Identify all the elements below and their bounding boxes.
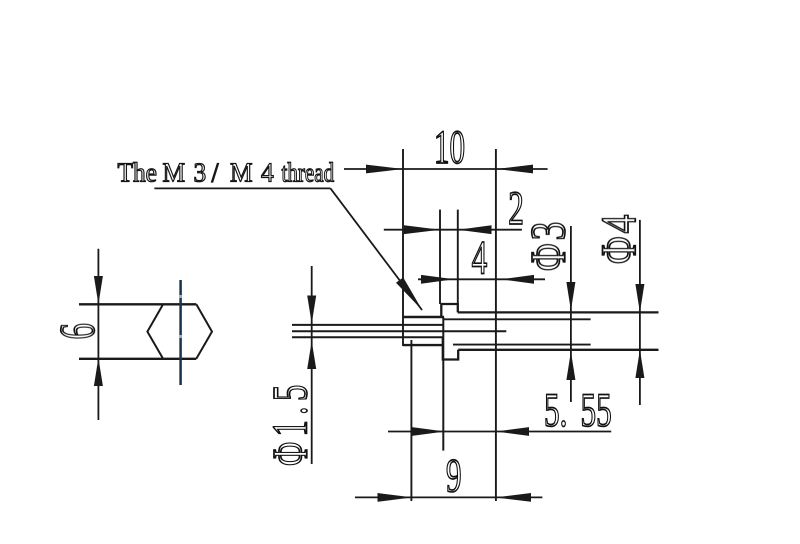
extension line x458 [457,210,459,304]
dim 5.55 right arrow [496,427,529,436]
hex head side view top line [79,303,196,305]
svg-text:thread: thread [282,158,335,188]
svg-text:10: 10 [434,121,465,174]
svg-text:/: / [212,158,220,188]
dim 10 text [434,121,465,174]
dim phi1.5 text [263,379,319,465]
dim phi4 upper arrow [635,284,644,312]
svg-text:Φ4: Φ4 [591,212,646,264]
svg-text:Φ3: Φ3 [520,219,575,271]
dim 9 dimension line [355,496,542,498]
dim 6 upper arrow [94,276,103,304]
leader arrowhead [396,277,423,310]
dim 5.55 dimension line [388,431,611,433]
dim 9 text [446,449,462,502]
dim phi4 dimension line [639,220,641,405]
svg-text:M4: M4 [230,158,282,188]
dim phi3 lower arrow [566,352,575,381]
ptfe tube bottom line [292,336,443,338]
extension line x411 [410,340,412,501]
dim phi1.5 lower arrow [307,341,316,369]
leader underline [154,187,330,189]
svg-text:9: 9 [446,449,462,502]
dim 2 left arrow [404,225,440,234]
dim 6 lower arrow [94,358,103,386]
dim 4 left arrow [421,275,454,284]
hex head side view bottom line [79,358,196,360]
dim 5.55 text [544,383,567,436]
svg-text:6: 6 [50,323,106,339]
dim 4 right arrow [501,275,534,284]
ptfe tube top line [292,324,443,326]
ptfe tube centerline [292,330,506,332]
dim phi3 dimension line [570,226,572,402]
dim phi3 upper arrow [566,282,575,311]
dim 2 dimension line [384,229,522,231]
extension line x440 [439,210,441,304]
body top edge [403,316,444,318]
extension line x443 [442,317,444,451]
hexagon right facets [196,304,212,359]
svg-text:Φ1.5: Φ1.5 [263,379,319,465]
bottom notch outline [443,337,458,359]
svg-text:5.: 5. [544,383,567,436]
dim 2 right arrow [458,225,492,234]
dim phi1.5 upper arrow [307,296,316,324]
dim 9 left arrow [378,493,413,502]
phi4 shaft bottom edge [458,349,658,351]
svg-text:55: 55 [581,383,612,436]
body bottom edge [403,344,443,346]
dim 9 right arrow [496,493,532,502]
dim 6 dimension line [97,249,99,420]
hexagon left facets [147,304,163,359]
dim 6 text [50,323,106,339]
dim phi4 text [591,212,646,264]
extension line x403 [402,149,404,346]
dim 10 right arrow [496,165,533,174]
dim phi4 lower arrow [635,350,644,378]
svg-text:M3: M3 [163,158,215,188]
dim 4 text [472,231,488,284]
leader diagonal line [331,188,423,310]
thread minor top line [444,318,591,320]
dim phi1.5 dimension line [311,266,313,464]
dim 5.55 left arrow [412,427,445,436]
svg-text:4: 4 [472,231,488,284]
dim phi3 text [520,219,575,271]
dim 2 text [508,181,524,234]
collar outline [441,304,458,317]
thread minor bottom line [453,344,591,346]
svg-text:The: The [118,158,157,188]
phi4 shaft top edge [458,311,659,313]
dim 4 dimension line [418,278,545,280]
extension line x496 [495,149,497,501]
hex view vertical centerline (navy) [179,280,182,385]
leader text The M3 / M4 thread [118,158,157,188]
dim 10 dimension line [344,168,548,170]
dim 10 left arrow [366,165,403,174]
